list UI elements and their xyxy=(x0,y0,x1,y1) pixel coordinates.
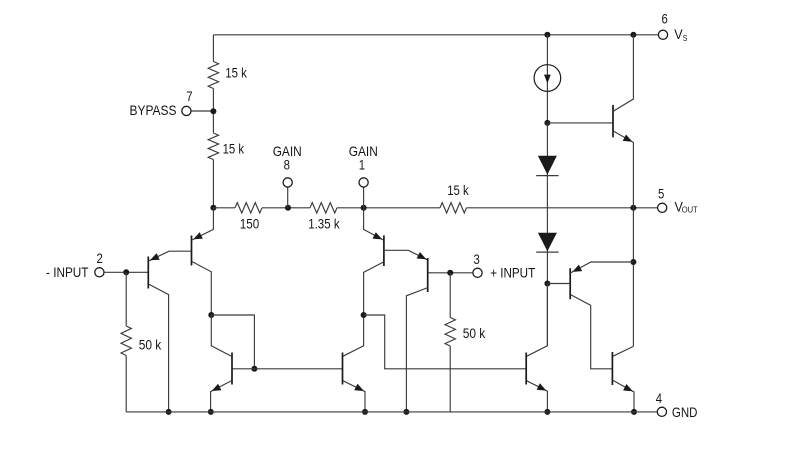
arrow Q10 emitter xyxy=(623,384,633,391)
svg-text:8: 8 xyxy=(284,157,290,173)
node output emitter junction xyxy=(630,259,636,265)
svg-text:BYPASS: BYPASS xyxy=(130,102,177,118)
wire Q6 emitter xyxy=(343,381,365,412)
svg-text:3: 3 xyxy=(474,251,480,267)
arrow Q7 emitter xyxy=(537,383,547,390)
resistor R6 50 k xyxy=(121,326,131,356)
node supply tap output xyxy=(630,32,636,38)
node gain1 junction xyxy=(361,205,367,211)
wire mirror base rail xyxy=(232,368,343,370)
pin 5 VOUT terminal xyxy=(658,203,667,212)
node mirror base tap xyxy=(251,366,257,372)
svg-text:OUT: OUT xyxy=(682,205,698,214)
arrow Q4 emitter xyxy=(373,232,383,239)
arrow Q8 emitter xyxy=(623,135,633,142)
node Q3 collector ground xyxy=(403,409,409,415)
resistor R3 150 xyxy=(235,203,262,213)
wire pin7 stub xyxy=(191,110,213,112)
wire top supply rail xyxy=(213,34,658,36)
resistor R5 15 k xyxy=(440,203,467,213)
node Q10 emitter ground xyxy=(631,409,637,415)
wire gain row segment 2 xyxy=(262,207,310,209)
transistor Q5 bar xyxy=(231,353,233,385)
node -input junction xyxy=(123,269,129,275)
svg-text:2: 2 xyxy=(97,250,103,266)
resistor R4 1.35 k xyxy=(310,203,337,213)
node diode PNP base junction xyxy=(544,281,550,287)
transistor Q3 bar xyxy=(427,258,429,292)
arrow Q1 emitter xyxy=(150,253,160,260)
transistor Q8 bar xyxy=(612,105,614,137)
arrow Q6 emitter xyxy=(354,384,364,391)
wire Q2 emitter to bypass column xyxy=(192,208,213,240)
wire Q8 collector xyxy=(614,35,634,111)
wire Q10 collector xyxy=(613,346,633,356)
wire pin2 to Q1 base xyxy=(104,271,148,273)
node gain8 junction xyxy=(285,205,291,211)
transistor Q6 bar xyxy=(342,353,344,385)
wire Q1 collector xyxy=(149,284,169,412)
wire current source column xyxy=(546,35,548,123)
transistor Q9 bar xyxy=(569,268,571,299)
pin 7 BYPASS terminal xyxy=(182,106,191,115)
wire bypass column lower xyxy=(212,160,214,208)
wire Q5 emitter xyxy=(211,381,232,412)
node Q5 emitter ground xyxy=(208,409,214,415)
wire gain row segment 1 xyxy=(213,207,235,209)
node Q6 emitter ground xyxy=(362,409,368,415)
svg-text:15 k: 15 k xyxy=(225,65,247,81)
svg-text:- INPUT: - INPUT xyxy=(46,264,89,280)
svg-text:50 k: 50 k xyxy=(463,325,486,341)
diode D2 xyxy=(538,233,557,251)
wire Q3 collector xyxy=(406,288,427,412)
node left mirror junction xyxy=(208,312,214,318)
wire Q3 base to pin3 xyxy=(428,272,473,274)
svg-text:6: 6 xyxy=(662,10,668,26)
wire Q10 emitter xyxy=(613,380,634,412)
wire output column xyxy=(632,208,634,347)
svg-text:7: 7 xyxy=(186,88,192,104)
resistor R1 15 k xyxy=(208,62,218,89)
transistor Q7 bar xyxy=(525,353,527,385)
wire Q4 collector xyxy=(364,262,384,315)
node vout junction xyxy=(630,205,636,211)
wire bypass column upper xyxy=(212,35,214,62)
wire Q6 collector xyxy=(343,315,364,356)
node supply tap current source xyxy=(544,32,550,38)
svg-text:4: 4 xyxy=(656,390,662,406)
wire 50k right upper xyxy=(449,273,451,318)
pin 4 GND terminal xyxy=(657,407,666,416)
transistor Q10 bar xyxy=(611,352,613,385)
wire output row segment xyxy=(467,207,658,209)
arrow Q2 emitter xyxy=(193,232,203,239)
svg-text:+ INPUT: + INPUT xyxy=(490,264,535,280)
node right mirror junction xyxy=(361,312,367,318)
resistor R2 15 k xyxy=(208,133,218,160)
wire Q8 emitter xyxy=(614,131,634,208)
wire Q7 emitter xyxy=(527,381,548,412)
arrow Q3 emitter xyxy=(417,252,427,259)
svg-text:GND: GND xyxy=(672,404,698,420)
svg-text:150: 150 xyxy=(240,216,260,232)
pin 3 +INPUT terminal xyxy=(473,268,482,277)
wire ground rail xyxy=(126,411,657,413)
current source I1 xyxy=(534,65,561,92)
transistor Q4 bar xyxy=(383,235,385,266)
wire Q4 base to Q3 emitter xyxy=(384,250,427,259)
wire Q9 emitter xyxy=(571,262,634,273)
transistor Q2 bar xyxy=(191,236,193,266)
resistor R7 50 k xyxy=(445,318,455,347)
wire gain8 stub xyxy=(287,187,289,208)
node gain row left junction xyxy=(210,205,216,211)
wire Q5 collector xyxy=(211,315,231,356)
node Q7 emitter ground xyxy=(544,409,550,415)
diode D1 xyxy=(538,156,557,175)
node bypass junction xyxy=(210,108,216,114)
wire Q1 emitter xyxy=(149,251,192,261)
arrow Q9 emitter xyxy=(572,265,582,272)
wire Q9 base xyxy=(547,283,570,285)
wire Q7 collector xyxy=(527,284,548,357)
pin 1 GAIN terminal xyxy=(359,178,368,187)
node bias junction upper xyxy=(544,120,550,126)
wire gain1 stub xyxy=(363,187,365,208)
svg-text:15 k: 15 k xyxy=(447,182,469,198)
pin 2 -INPUT terminal xyxy=(95,268,104,277)
pin 6 VS terminal xyxy=(658,30,667,39)
node Q1 collector ground xyxy=(166,409,172,415)
svg-text:1.35 k: 1.35 k xyxy=(308,216,340,232)
wire diode column xyxy=(546,123,548,346)
svg-text:S: S xyxy=(683,34,688,43)
arrow current source xyxy=(544,75,551,84)
wire Q9 collector xyxy=(571,295,613,369)
svg-text:50 k: 50 k xyxy=(139,337,162,353)
wire Q2 collector xyxy=(192,262,211,315)
pin 8 GAIN terminal xyxy=(283,178,292,187)
transistor Q1 bar xyxy=(147,257,149,289)
wire bias to Q8 base xyxy=(547,122,613,124)
svg-text:5: 5 xyxy=(658,186,664,202)
wire 50k right lower xyxy=(449,346,451,412)
wire bypass column middle xyxy=(212,89,214,134)
svg-text:15 k: 15 k xyxy=(223,140,245,156)
wire mirror cross link xyxy=(211,315,254,369)
wire Q4 emitter to gain1 column xyxy=(364,208,384,240)
wire 50k left upper xyxy=(125,272,127,326)
wire gain row segment 3 xyxy=(337,207,440,209)
svg-text:1: 1 xyxy=(359,157,365,173)
wire 50k left lower xyxy=(125,356,127,412)
node +input junction xyxy=(447,270,453,276)
arrow Q5 emitter xyxy=(212,384,222,391)
wire mirror to driver base xyxy=(364,315,527,369)
